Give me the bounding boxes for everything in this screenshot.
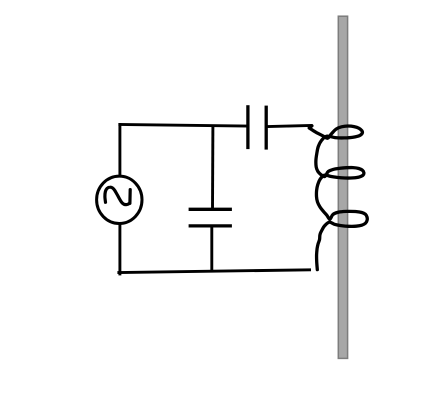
wire: C2 top lead from top wire T-junction — [211, 125, 214, 209]
capacitor C2 (shunt) top plate — [189, 208, 232, 211]
wire: C2 bottom lead to bottom wire — [210, 226, 213, 272]
AC source V1 — [97, 176, 142, 223]
capacitor C2 (shunt) bottom plate — [189, 224, 232, 227]
capacitor C1 (series) right plate — [265, 106, 268, 150]
wire: left vertical from source V1 down to bottom-left corner — [118, 224, 121, 275]
wire: from C1 right plate to coil L1 — [268, 125, 312, 126]
wire: left vertical from top corner down to source V1 — [118, 123, 121, 176]
inductor coil L1 wound around rod — [309, 126, 367, 270]
wire: top wire from left corner to C1 left plate — [118, 124, 248, 126]
ferrite rod core — [338, 16, 347, 358]
wire: bottom wire from bottom-left corner to right end — [117, 270, 311, 273]
capacitor C1 (series) left plate — [246, 105, 249, 149]
